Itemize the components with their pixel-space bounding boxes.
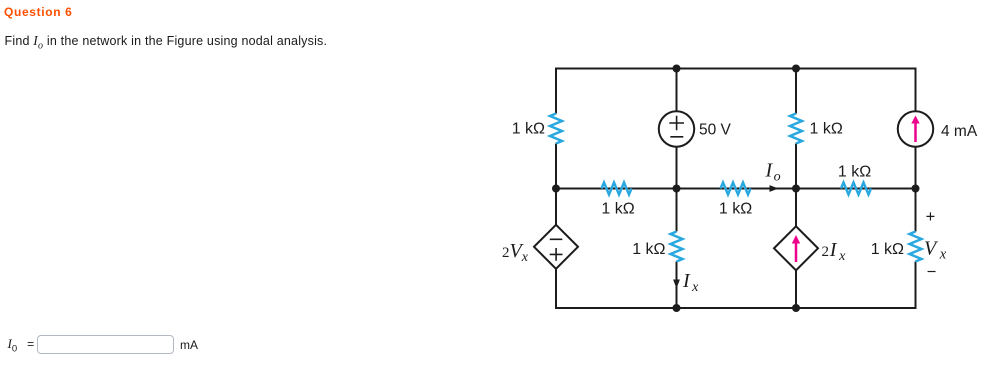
svg-text:+: + [926, 208, 936, 226]
svg-text:1 kΩ: 1 kΩ [719, 201, 752, 218]
svg-text:1 kΩ: 1 kΩ [601, 201, 634, 218]
svg-text:1 kΩ: 1 kΩ [810, 121, 843, 138]
svg-text:1 kΩ: 1 kΩ [512, 121, 545, 138]
svg-text:1 kΩ: 1 kΩ [871, 241, 904, 258]
svg-text:Vx: Vx [924, 238, 947, 263]
svg-text:4 mA: 4 mA [941, 123, 978, 140]
svg-text:50 V: 50 V [699, 122, 732, 139]
svg-text:2Ix: 2Ix [822, 239, 847, 264]
svg-text:Ix: Ix [682, 270, 699, 295]
svg-text:1 kΩ: 1 kΩ [632, 241, 665, 258]
svg-text:Io: Io [765, 159, 781, 184]
svg-text:1 kΩ: 1 kΩ [838, 164, 871, 181]
svg-text:2Vx: 2Vx [502, 240, 529, 265]
svg-text:−: − [927, 263, 937, 281]
